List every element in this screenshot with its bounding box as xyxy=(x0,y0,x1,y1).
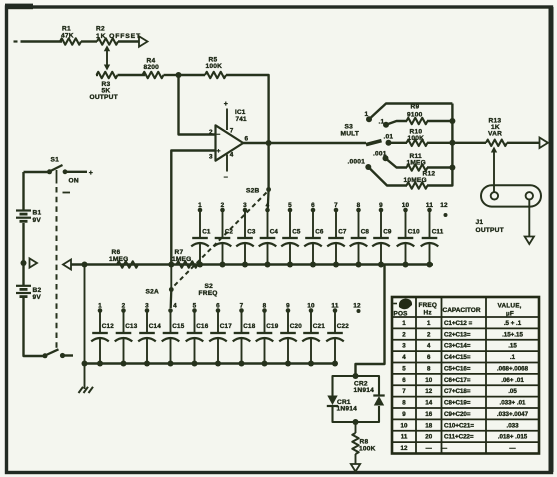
wire contact .0001 to R12 xyxy=(368,167,407,186)
svg-text:5: 5 xyxy=(402,365,406,372)
svg-text:9100: 9100 xyxy=(407,112,423,119)
svg-text:C5: C5 xyxy=(292,229,301,236)
node limiter bottom xyxy=(353,419,359,425)
svg-text:3: 3 xyxy=(209,154,213,161)
svg-text:S2B: S2B xyxy=(246,188,259,195)
svg-text:47K: 47K xyxy=(61,33,74,40)
svg-text:1K OFFSET: 1K OFFSET xyxy=(96,33,141,40)
svg-text:Hz: Hz xyxy=(424,310,432,317)
svg-text:C11+C22=: C11+C22= xyxy=(444,434,474,441)
svg-text:10: 10 xyxy=(401,422,408,429)
svg-text:6: 6 xyxy=(427,354,431,361)
node junction R4-R5-feedback xyxy=(176,72,182,78)
svg-text:B2: B2 xyxy=(33,287,42,294)
svg-text:FREQ: FREQ xyxy=(199,290,218,297)
resistor R5 xyxy=(205,72,226,78)
svg-text:9: 9 xyxy=(402,411,406,418)
wire B1 to node xyxy=(22,223,24,286)
node battery mid xyxy=(21,260,27,266)
wire jack sleeve to ground arrow xyxy=(528,200,530,238)
svg-text:4: 4 xyxy=(427,343,431,350)
wire limiter to R8 xyxy=(355,422,357,433)
svg-text:.0001: .0001 xyxy=(348,159,366,166)
svg-text:−: − xyxy=(224,173,229,182)
svg-text:8: 8 xyxy=(402,400,406,407)
node limiter top xyxy=(353,373,359,379)
svg-text:C11: C11 xyxy=(432,229,444,236)
resistor R4 xyxy=(143,72,164,78)
svg-text:C15: C15 xyxy=(172,323,184,330)
node ground tee on bus xyxy=(82,262,88,268)
wire op-amp output xyxy=(243,142,366,144)
svg-text:CAPACITOR: CAPACITOR xyxy=(443,307,481,314)
svg-text:.1: .1 xyxy=(510,354,516,361)
svg-text:R9: R9 xyxy=(411,104,420,111)
svg-text:4: 4 xyxy=(230,152,234,159)
wiper of R2 down to R3 wiper xyxy=(106,48,108,67)
svg-text:J1: J1 xyxy=(476,219,484,226)
svg-text:C8+C19=: C8+C19= xyxy=(444,400,471,407)
wire B2 to switch pole 2 xyxy=(24,297,45,356)
svg-text:C7+C18=: C7+C18= xyxy=(444,388,471,395)
svg-text:100K: 100K xyxy=(408,135,425,142)
switch S3 MULT wiper blade xyxy=(366,141,382,145)
svg-text:C1: C1 xyxy=(202,229,211,236)
svg-text:1MEG: 1MEG xyxy=(172,256,192,263)
svg-text:C17: C17 xyxy=(220,323,232,330)
svg-text:8200: 8200 xyxy=(144,64,160,71)
svg-text:6: 6 xyxy=(245,136,249,143)
node bus-R11 xyxy=(449,165,455,171)
svg-text:C22: C22 xyxy=(337,323,349,330)
svg-text:.15+.15: .15+.15 xyxy=(502,331,523,338)
svg-text:C9: C9 xyxy=(383,229,392,236)
svg-text:C12: C12 xyxy=(102,323,114,330)
wire R9 to bus xyxy=(427,120,452,122)
battery B2 9V xyxy=(16,285,31,287)
wire output node down to S2B xyxy=(267,143,269,190)
svg-text:2: 2 xyxy=(427,331,431,338)
ground symbol xyxy=(79,387,84,393)
svg-text:4: 4 xyxy=(402,354,406,361)
dashed gang link S2B to S2A xyxy=(174,193,267,287)
wire R13 to output arrow xyxy=(507,142,540,144)
jack J1 tip terminal xyxy=(491,192,498,199)
node bus-R9 xyxy=(449,118,455,124)
svg-text:12: 12 xyxy=(353,303,361,310)
svg-text:14: 14 xyxy=(425,400,432,407)
arrowhead output right xyxy=(540,138,549,149)
arrowhead jack ground xyxy=(525,237,534,245)
border corner reinforcement top-left xyxy=(5,4,33,10)
diode CR1 1N914 xyxy=(327,396,337,406)
svg-text:+: + xyxy=(224,101,228,108)
svg-text:16: 16 xyxy=(425,411,432,418)
svg-text:C4+C15=: C4+C15= xyxy=(444,354,471,361)
contact .001 of S3 xyxy=(383,155,389,161)
svg-text:11: 11 xyxy=(401,434,408,441)
node pin3 tee on bus xyxy=(168,262,174,268)
node bus-R10 main xyxy=(449,140,455,146)
svg-text:−: − xyxy=(217,132,221,139)
label minus near S1 xyxy=(63,192,71,194)
svg-text:S2: S2 xyxy=(205,283,214,290)
svg-text:B1: B1 xyxy=(33,210,42,217)
wire contact 1 to top rail xyxy=(369,104,452,120)
svg-text:1: 1 xyxy=(365,111,369,118)
svg-text:.033: .033 xyxy=(506,422,519,429)
svg-text:.15: .15 xyxy=(508,343,517,350)
svg-text:9V: 9V xyxy=(33,217,42,224)
wire limiter box xyxy=(333,376,380,396)
resistor R2 1K offset pot xyxy=(97,38,118,44)
svg-text:C21: C21 xyxy=(313,323,325,330)
wire ground drop xyxy=(84,265,86,390)
op-amp U1 IC1 741 xyxy=(216,125,244,160)
svg-text:1N914: 1N914 xyxy=(337,406,358,413)
wire input stub top-left xyxy=(14,40,18,42)
contact .01 of S3 xyxy=(386,140,392,146)
wire contact .001 to R11 xyxy=(386,158,408,167)
resistor R9 xyxy=(407,118,428,124)
svg-text:1: 1 xyxy=(402,320,406,327)
wire top capacitor bus xyxy=(71,263,434,265)
svg-text:.018+ .015: .018+ .015 xyxy=(498,434,528,441)
svg-text:S1: S1 xyxy=(51,157,60,164)
jack J1 sleeve terminal xyxy=(526,192,533,199)
contact 1 of S3 xyxy=(366,116,372,122)
svg-text:100K: 100K xyxy=(206,63,223,70)
arrowhead right end of offset line xyxy=(139,36,148,47)
wire R11 to bus xyxy=(427,166,452,168)
wire junction to R5 xyxy=(179,74,206,76)
svg-text:C18: C18 xyxy=(243,323,255,330)
wire R10 to bus xyxy=(427,142,452,144)
wire R5 to output node xyxy=(226,75,269,141)
wire non-inverting input to cap bus xyxy=(171,151,214,264)
svg-text:C4: C4 xyxy=(270,229,279,236)
svg-text:VAR: VAR xyxy=(488,131,502,138)
svg-text:C6+C17=: C6+C17= xyxy=(444,377,471,384)
svg-text:MULT: MULT xyxy=(341,131,360,138)
wire bottom capacitor bus xyxy=(85,362,338,364)
battery B1 9V xyxy=(16,209,31,211)
svg-text:.068+.0068: .068+.0068 xyxy=(497,365,529,372)
svg-text:IC1: IC1 xyxy=(235,109,246,116)
jack J1 body xyxy=(481,185,541,206)
wire R3 to R4 xyxy=(118,74,146,76)
wire R8 to arrow xyxy=(355,454,357,466)
resistor R11 xyxy=(407,164,428,170)
pin 7 supply lead with plus xyxy=(226,109,228,131)
svg-text:C6: C6 xyxy=(315,229,324,236)
svg-text:OUTPUT: OUTPUT xyxy=(476,227,504,234)
arrowhead R8 bottom xyxy=(351,464,360,472)
switch S2A wiper xyxy=(169,287,174,292)
svg-text:8: 8 xyxy=(427,365,431,372)
svg-text:C16: C16 xyxy=(196,323,208,330)
svg-text:C10+C21=: C10+C21= xyxy=(444,422,474,429)
svg-text:C2: C2 xyxy=(225,229,234,236)
svg-text:10: 10 xyxy=(425,377,432,384)
resistor R6 xyxy=(117,261,138,267)
svg-text:C19: C19 xyxy=(266,323,278,330)
svg-text:.05: .05 xyxy=(508,388,517,395)
svg-text:20: 20 xyxy=(425,434,432,441)
resistor R13 1K VAR xyxy=(486,140,507,146)
svg-text:100K: 100K xyxy=(359,446,376,453)
svg-text:OUTPUT: OUTPUT xyxy=(90,94,118,101)
table grid frequency chart xyxy=(392,297,539,454)
svg-text:C5+C16=: C5+C16= xyxy=(444,365,471,372)
dashed gang link S1 xyxy=(56,170,58,184)
wire C9 bus node down to limiter xyxy=(356,265,385,377)
svg-text:C14: C14 xyxy=(149,323,161,330)
switch S2B wiper xyxy=(266,187,271,192)
svg-text:4: 4 xyxy=(173,303,177,310)
svg-text:R2: R2 xyxy=(96,26,105,33)
svg-text:9V: 9V xyxy=(33,294,42,301)
svg-text:C13: C13 xyxy=(125,323,137,330)
svg-text:C8: C8 xyxy=(361,229,370,236)
svg-text:1MEG: 1MEG xyxy=(407,160,427,167)
svg-text:.001: .001 xyxy=(373,151,387,158)
pin 4 supply lead with minus xyxy=(226,155,228,172)
resistor R7 xyxy=(177,261,198,267)
wire S3 multiplier bus xyxy=(451,104,453,168)
svg-text:1: 1 xyxy=(427,320,431,327)
svg-text:—: — xyxy=(509,445,516,452)
table header xyxy=(393,303,397,305)
svg-text:+: + xyxy=(217,148,221,155)
svg-text:C7: C7 xyxy=(338,229,347,236)
svg-text:C3+C14=: C3+C14= xyxy=(444,343,471,350)
svg-text:7: 7 xyxy=(230,128,234,135)
contact .0001 of S3 xyxy=(365,164,371,170)
svg-text:741: 741 xyxy=(236,116,248,123)
svg-text:VALUE,: VALUE, xyxy=(498,303,522,310)
svg-text:—: — xyxy=(441,445,448,452)
wire bus to R13 xyxy=(452,142,486,144)
contact .1 of S3 xyxy=(383,122,389,128)
svg-text:.033+.0047: .033+.0047 xyxy=(497,411,529,418)
wire contact .01 to R10 xyxy=(389,142,408,144)
svg-text:2: 2 xyxy=(402,331,406,338)
svg-text:10MEG: 10MEG xyxy=(404,177,427,184)
svg-text:.06+ .01: .06+ .01 xyxy=(501,377,524,384)
svg-text:+: + xyxy=(89,170,93,177)
svg-text:R1: R1 xyxy=(62,26,71,33)
svg-text:12: 12 xyxy=(425,388,432,395)
svg-text:—: — xyxy=(426,445,433,452)
svg-text:C2+C13=: C2+C13= xyxy=(444,331,471,338)
svg-text:.01: .01 xyxy=(384,134,394,141)
svg-text:POS: POS xyxy=(394,311,409,318)
svg-text:C1+C12 =: C1+C12 = xyxy=(444,320,473,327)
svg-text:µF: µF xyxy=(506,311,514,318)
wire contact .1 to R9 xyxy=(386,121,407,125)
svg-text:1MEG: 1MEG xyxy=(109,256,129,263)
wire feedback to inverting input xyxy=(179,75,215,135)
resistor R1 xyxy=(60,38,81,44)
resistor R8 xyxy=(352,433,358,454)
svg-text:FREQ: FREQ xyxy=(419,302,438,309)
svg-text:C3: C3 xyxy=(247,229,256,236)
node output junction xyxy=(266,140,272,146)
resistor R12 xyxy=(407,182,428,188)
wire R1 to R2 xyxy=(81,40,97,42)
resistor R3 output pot xyxy=(96,74,98,76)
wire pin3 net down to S2A xyxy=(170,265,172,290)
wire R4 to junction xyxy=(164,74,179,76)
svg-text:18: 18 xyxy=(425,422,432,429)
svg-text:C9+C20=: C9+C20= xyxy=(444,411,471,418)
svg-text:ON: ON xyxy=(69,178,79,185)
wire battery rail top xyxy=(22,172,24,211)
svg-text:1N914: 1N914 xyxy=(354,387,375,394)
switch S1 pole 2 xyxy=(43,353,48,358)
svg-text:2: 2 xyxy=(209,129,213,136)
svg-text:.5 + .1: .5 + .1 xyxy=(504,320,522,327)
diode CR2 1N914 xyxy=(374,396,384,406)
wire R2 to arrow xyxy=(118,40,141,42)
svg-text:12: 12 xyxy=(440,202,448,209)
wire R12 to bus corner xyxy=(427,168,452,186)
svg-text:.033+ .01: .033+ .01 xyxy=(500,400,527,407)
svg-text:7: 7 xyxy=(402,388,406,395)
svg-text:C20: C20 xyxy=(290,323,302,330)
svg-text:S3: S3 xyxy=(345,124,354,131)
svg-text:3: 3 xyxy=(402,343,406,350)
svg-text:12: 12 xyxy=(401,445,408,452)
svg-text:R8: R8 xyxy=(360,439,369,446)
arrowhead battery mid right xyxy=(30,258,38,267)
svg-text:6: 6 xyxy=(402,377,406,384)
svg-text:C10: C10 xyxy=(408,229,420,236)
arrowhead cap bus left xyxy=(63,260,71,270)
wiper of R13 down to jack xyxy=(491,147,497,153)
svg-text:.1: .1 xyxy=(379,119,385,126)
resistor R10 xyxy=(407,140,428,146)
svg-text:S2A: S2A xyxy=(146,289,159,296)
